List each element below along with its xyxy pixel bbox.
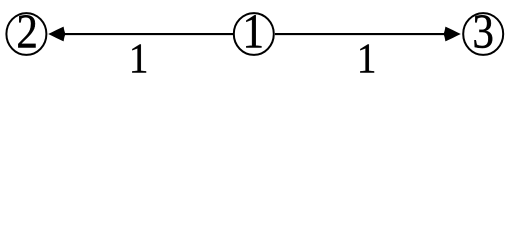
svg-text:1: 1 — [129, 35, 149, 82]
svg-text:1: 1 — [357, 35, 377, 82]
svg-text:3: 3 — [472, 4, 494, 58]
svg-text:1: 1 — [243, 4, 265, 58]
svg-text:2: 2 — [16, 4, 38, 58]
